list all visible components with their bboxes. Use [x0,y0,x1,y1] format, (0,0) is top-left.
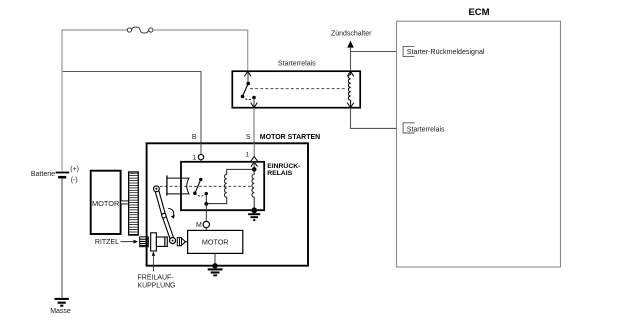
hold-in winding L3 [252,169,254,210]
relay coil L1 [348,71,350,107]
svg-text:1: 1 [192,154,196,161]
rotation arrow [168,208,174,218]
wire relay to terminal S [253,108,255,143]
terminal S pin 1 triangle [246,143,258,169]
svg-text:Starterrelais: Starterrelais [407,126,445,133]
svg-text:Zündschalter: Zündschalter [331,30,372,37]
svg-text:B: B [192,134,197,141]
svg-text:ECM: ECM [468,7,489,18]
arrow shaft to motor [182,239,188,245]
ground motor [208,269,223,275]
node M junction [204,202,208,206]
svg-text:MOTOR: MOTOR [92,199,119,208]
shift lever arm [156,189,172,241]
terminal Starterrelais [403,123,445,134]
svg-text:Batterie: Batterie [31,171,55,178]
svg-text:KUPPLUNG: KUPPLUNG [138,282,176,289]
svg-text:EINRÜCK-: EINRÜCK- [267,161,300,170]
ring gear rack [129,172,139,235]
wire battery branch to terminal B [63,72,201,144]
shaft motor to ring gear [121,201,129,204]
wire fuse to starter relay contact [153,30,248,71]
motor M2 drive MOTOR box left [91,171,121,234]
dashed actuator line [160,185,253,187]
svg-text:RITZEL: RITZEL [95,239,119,246]
ECM box [397,7,561,267]
svg-text:Starterrelais: Starterrelais [278,61,316,68]
wire motor to ground [214,253,216,264]
fuse F [127,27,153,33]
pin arrow relay contact top [244,71,251,76]
svg-text:MOTOR STARTEN: MOTOR STARTEN [260,134,320,141]
relay K1 Starterrelais box [232,61,360,108]
svg-text:(-): (-) [71,177,78,184]
pinion gear [140,237,149,247]
pivot lever bottom [170,238,176,244]
wire switch to motor terminal M [205,204,207,221]
relay contact switch [241,72,256,108]
pin arrow relay coil top [347,71,354,76]
ignition switch arrow Zuendschalter [331,30,372,71]
wire battery negative to ground [61,179,63,298]
svg-text:FREILAUF-: FREILAUF- [138,274,175,281]
pin arrow relay coil bottom [347,103,354,108]
svg-text:Starter-Rückmeldesignal: Starter-Rückmeldesignal [407,48,485,56]
terminal circle B pin 1 [192,143,203,179]
svg-text:1: 1 [246,152,250,159]
battery Batterie [31,166,79,184]
pin arrow relay contact bottom [251,103,258,108]
motor M1 starter MOTOR box [188,230,243,253]
freewheel clutch body [151,233,168,251]
wire relay coil to ECM Starterrelais [351,108,404,129]
node solenoid ground [251,207,257,213]
solenoid plunger [167,175,189,195]
svg-text:Masse: Masse [50,308,71,315]
node motor ground [212,263,217,268]
svg-text:M: M [196,222,202,229]
solenoid box EINRUECK-RELAIS [181,161,300,210]
node S junction [252,167,257,172]
label FREILAUF-KUPPLUNG with arrow [138,251,175,281]
dashed link relay contact to coil [250,88,345,90]
pivot top [154,186,160,192]
terminal Starter-Rueckmeldesignal [403,46,485,56]
box edge over pinion [146,236,148,247]
ground Masse [50,299,71,315]
svg-text:S: S [246,134,251,141]
terminal circle M [196,221,210,230]
pull-in winding L2 [206,169,254,203]
wire battery positive to fuse (top horizontal + left vertical) [62,30,127,171]
pivot middle fulcrum [162,213,166,217]
wire ignition node to ECM Starter-Rueckmeldesignal [351,51,404,53]
label RITZEL with arrow [95,239,138,246]
svg-text:MOTOR: MOTOR [202,238,229,247]
clutch collar [177,238,181,246]
ground solenoid [248,214,260,220]
starter assembly box MOTOR STARTEN [147,134,321,266]
solenoid contact switch [193,178,208,204]
svg-text:(+): (+) [70,166,79,173]
svg-text:RELAIS: RELAIS [267,170,292,177]
